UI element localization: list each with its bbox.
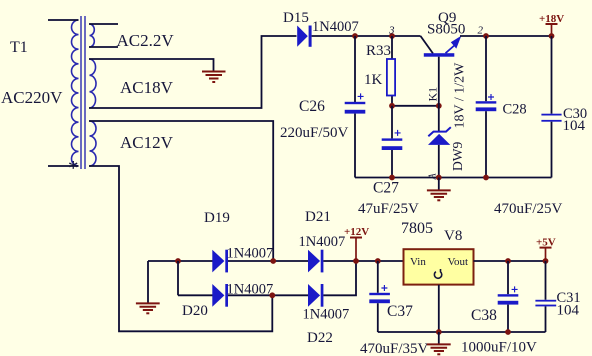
svg-text:7805: 7805 [401,220,433,237]
transformer T1 secondary winding AC12V [90,121,97,166]
power +12V [344,226,369,264]
transistor Q9 base lead down [438,57,440,106]
svg-text:C38: C38 [471,307,497,324]
svg-text:3: 3 [388,25,395,37]
capacitor C26 lead top [354,36,356,102]
resistor R33 [387,59,395,96]
svg-text:S8050: S8050 [427,22,465,38]
svg-text:*: * [68,156,79,180]
svg-text:+5V: +5V [536,237,556,249]
node 3 junction [389,33,395,39]
wire top rail right segment to 7805 [323,260,403,262]
node K1 junction [436,103,442,109]
wire top rectifier rail left segment [148,260,213,262]
svg-text:D22: D22 [307,330,333,346]
diode D22 [308,284,323,307]
capacitor C30 lead bottom [551,122,553,178]
svg-text:R33: R33 [366,43,391,59]
node C38 bottom junction [505,329,511,335]
capacitor C27 lead top [391,106,393,139]
wire AC2.2V top stub [89,23,118,25]
diode D15 [297,26,311,47]
svg-text:T1: T1 [10,39,28,56]
svg-text:D19: D19 [204,210,230,226]
svg-text:104: 104 [563,118,586,134]
node C27 bottom junction [389,175,395,181]
wire primary bottom lead [48,165,79,167]
svg-text:470uF/25V: 470uF/25V [494,201,563,217]
ground symbol below DW9 [427,178,451,201]
node C26 top junction [352,33,358,39]
transistor Q9 emitter with arrow [446,36,462,54]
wire upper ground rail [355,177,552,179]
capacitor C27 lead bottom [391,150,393,178]
svg-text:C37: C37 [387,303,413,320]
capacitor C37 lead bottom [377,303,379,332]
capacitor C26 [345,93,366,113]
svg-text:C28: C28 [503,102,527,118]
wire AC18V top tap to ground [89,59,214,71]
svg-text:D20: D20 [182,303,208,319]
svg-text:47uF/25V: 47uF/25V [358,201,419,217]
capacitor C28 lead bottom [485,111,487,177]
wire R33 bottom to K1 node [392,105,439,107]
node C38 top junction [505,258,511,264]
capacitor C28 lead top [485,36,487,101]
svg-text:K1: K1 [426,87,440,102]
node A junction [436,175,442,181]
svg-text:220uF/50V: 220uF/50V [280,125,349,141]
svg-text:+18V: +18V [539,13,564,25]
svg-text:104: 104 [557,303,580,319]
svg-text:AC2.2V: AC2.2V [117,31,175,50]
node R33 bottom junction [389,103,395,109]
capacitor C30 lead top [551,36,553,114]
transformer T1 secondary winding AC18V [90,59,97,108]
svg-text:1N4007: 1N4007 [312,19,359,35]
wire AC12V bottom tap down and across [89,166,272,331]
power +5V [536,237,556,264]
capacitor C37 [369,285,390,303]
svg-text:DW9: DW9 [450,142,465,171]
wire D15 cathode to Q9 collector [312,35,421,37]
svg-text:18V / 1/2W: 18V / 1/2W [453,62,468,129]
ground symbol at AC18V tap [202,72,226,83]
wire 7805 ground pin [438,285,440,332]
transformer T1 secondary winding AC2.2V [90,24,95,47]
wire AC2.2V bottom stub [89,46,118,48]
node C28 bottom junction [483,175,489,181]
ground symbol below 7805 [427,332,451,354]
power +18V [539,13,564,39]
node C37 junction [375,258,381,264]
svg-text:1N4007: 1N4007 [299,234,346,250]
wire ground drop at lower-left [147,261,149,303]
svg-text:Vin: Vin [410,256,426,268]
wire bottom rectifier rail left segment [178,294,213,296]
node 7805 ground junction [436,329,442,335]
wire 7805 Vout to +5V [474,260,546,262]
wire top rail middle segment [228,260,308,262]
diode D20 [212,284,228,307]
svg-text:1000uF/10V: 1000uF/10V [461,340,537,356]
node AC12V bottom junction [269,292,275,298]
svg-text:+12V: +12V [344,226,369,238]
svg-text:C26: C26 [299,98,325,115]
capacitor C38 lead bottom [507,305,509,332]
svg-text:2: 2 [478,25,484,37]
svg-text:A: A [428,173,439,181]
svg-text:V8: V8 [444,228,462,244]
resistor R33 leads [391,36,393,106]
zener diode DW9 leads [438,106,440,178]
node rail junction left [175,258,181,264]
svg-text:470uF/35V: 470uF/35V [360,341,429,356]
capacitor C31 [535,300,556,307]
wire bottom rail middle segment [228,294,308,296]
capacitor C30 [541,114,561,122]
wire AC18V bottom tap up to D15 [89,36,297,108]
svg-text:1K: 1K [364,72,383,88]
svg-text:1N4007: 1N4007 [303,307,350,323]
svg-text:AC18V: AC18V [120,78,174,97]
diode D19 [212,250,228,273]
zener diode DW9 [428,127,451,145]
transformer T1 primary winding [71,20,78,166]
capacitor C26 lead bottom [354,114,356,178]
wire primary top lead [48,19,79,21]
capacitor C28 [476,94,497,111]
capacitor C38 [498,286,519,304]
svg-text:Vout: Vout [448,256,469,268]
capacitor C38 lead top [507,261,509,294]
capacitor C31 lead top [545,261,547,300]
transistor Q9 collector lead [421,36,434,54]
regulator 7805 V8 [404,249,474,284]
wire D22 cathode up to +12V rail [323,261,356,295]
svg-text:AC12V: AC12V [120,133,174,152]
capacitor C27 [382,130,403,150]
wire between rails at x178 [177,261,179,295]
wire lower bottom rail [378,331,546,333]
transformer T1 core [81,16,85,169]
ground symbol lower-left [136,303,160,313]
transistor Q9 base bar [424,53,455,57]
svg-text:AC220V: AC220V [1,88,63,107]
svg-text:D15: D15 [283,10,309,26]
node 2 junction [483,33,489,39]
wire AC12V top tap down to rectifier rail [89,121,273,261]
capacitor C31 lead bottom [545,306,547,332]
diode D21 [308,250,323,273]
wire Q9 emitter to +18V [460,35,552,37]
svg-text:C27: C27 [373,180,399,197]
svg-text:1N4007: 1N4007 [227,246,274,262]
node AC12V top junction [270,258,276,264]
svg-text:D21: D21 [305,209,331,225]
capacitor C37 lead top [377,261,379,293]
